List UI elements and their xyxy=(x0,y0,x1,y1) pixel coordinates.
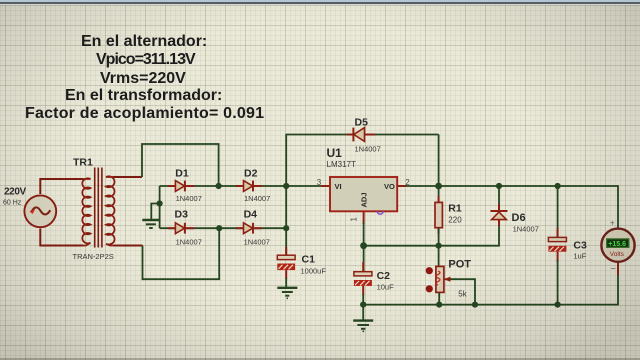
ground (C2) xyxy=(353,321,373,332)
node: ADJ xyxy=(360,242,367,249)
node: ground tap xyxy=(157,200,163,206)
ground (C1) xyxy=(277,288,297,299)
node: D3-D4 right xyxy=(283,225,289,231)
resistor R1 xyxy=(435,196,442,234)
wire: POT wiper to rail xyxy=(450,279,475,304)
node: secondary bottom / D3-D4 xyxy=(216,225,222,231)
wire: bottom rail xyxy=(363,262,618,305)
core xyxy=(95,168,102,248)
node: POT bottom xyxy=(436,302,442,308)
wire: ground tap xyxy=(151,204,159,220)
wire: secondary bottom stub xyxy=(114,245,143,247)
diode D5 xyxy=(347,128,375,142)
primary winding xyxy=(82,178,90,245)
wire: D6 top stub xyxy=(498,186,500,206)
capacitor C1 xyxy=(277,247,295,279)
voltmeter xyxy=(601,229,634,275)
wire: source bottom to primary xyxy=(40,229,83,246)
diode D3 xyxy=(168,223,194,234)
node: C3 top xyxy=(555,183,561,189)
wire: R1 top stub xyxy=(438,186,440,202)
wire: C2 top xyxy=(363,246,365,272)
regulator U1 LM317T xyxy=(321,177,406,224)
wire: R1/POT link xyxy=(438,246,440,267)
wire: C3 bottom xyxy=(557,260,559,305)
wire: D1 row xyxy=(160,185,330,187)
wire: bridge left vertical xyxy=(159,186,161,228)
potentiometer POT 5k xyxy=(426,266,451,292)
wire: C3 top xyxy=(557,186,559,237)
wire: POT bottom xyxy=(438,292,440,304)
node: VO / D5 / R1 xyxy=(435,183,442,190)
diode D4 xyxy=(236,223,262,234)
wire: source top to primary xyxy=(40,179,83,194)
node: R1 bottom xyxy=(436,243,442,249)
wire: output rail xyxy=(406,186,618,229)
node: wiper bottom xyxy=(472,302,478,308)
wire: ADJ down xyxy=(363,222,365,246)
wire: secondary top stub xyxy=(114,176,143,178)
wire: bridge right vertical xyxy=(285,186,287,255)
node: C2 bottom xyxy=(360,302,366,308)
ground (bridge) xyxy=(142,220,160,228)
wire: R1 bottom to adj rail xyxy=(438,228,440,246)
secondary winding xyxy=(106,176,115,245)
wire: C1 to ground xyxy=(285,278,287,287)
wire: C2 to bottom rail xyxy=(362,294,364,320)
junction dots xyxy=(157,183,561,308)
node: secondary top / D1-D2 xyxy=(216,183,222,189)
node: VI / C1 / D5 xyxy=(283,183,289,189)
transformer TR1 xyxy=(82,168,114,248)
wire: D5 branch xyxy=(286,135,438,187)
node: D6 top xyxy=(496,183,502,189)
AC source V1 220V xyxy=(24,195,56,227)
diode D2 xyxy=(236,181,262,192)
capacitor C3 xyxy=(548,228,566,262)
wire: D3 row xyxy=(160,227,287,229)
diode D1 xyxy=(168,181,194,192)
wire: secondary top loop to bridge xyxy=(142,144,219,186)
wire: secondary bottom loop to bridge xyxy=(143,228,220,279)
node: C3 bottom xyxy=(555,302,561,308)
annotation text block xyxy=(81,33,207,51)
capacitor C2 xyxy=(354,262,372,295)
wire: ADJ rail to D6 xyxy=(364,224,499,246)
diode D6 xyxy=(491,204,508,226)
